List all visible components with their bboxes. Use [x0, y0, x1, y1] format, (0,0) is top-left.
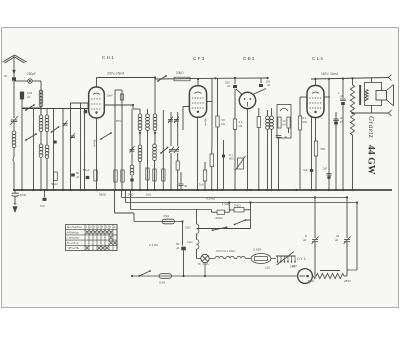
svg-text:0.5A: 0.5A: [163, 214, 169, 218]
svg-text:MΩ: MΩ: [303, 120, 307, 124]
svg-text:CB2: CB2: [185, 226, 191, 230]
svg-text:µF: µF: [227, 84, 231, 88]
svg-text:10nF: 10nF: [107, 94, 114, 98]
svg-text:Kurzw.: Kurzw.: [67, 241, 80, 245]
svg-text:0.5A: 0.5A: [159, 281, 165, 285]
svg-text:Schalter: Schalter: [67, 225, 85, 229]
svg-text:Th. 0,2A: Th. 0,2A: [198, 262, 209, 266]
svg-text:240: 240: [292, 264, 297, 268]
svg-text:270V: 270V: [308, 279, 315, 283]
svg-text:30: 30: [184, 184, 188, 188]
svg-text:580Ω: 580Ω: [99, 193, 107, 197]
svg-text:µF: µF: [340, 120, 344, 124]
svg-text:CH1: CH1: [187, 240, 193, 244]
svg-text:C B 2: C B 2: [243, 56, 255, 61]
svg-text:kΩ: kΩ: [283, 123, 286, 127]
svg-text:250pF: 250pF: [27, 72, 36, 76]
svg-text:Graetz: Graetz: [367, 116, 375, 138]
svg-text:2µF: 2µF: [323, 167, 328, 171]
svg-text:TA: TA: [67, 246, 80, 250]
svg-text:C Y 1: C Y 1: [297, 257, 306, 261]
svg-text:Mittelw.: Mittelw.: [67, 230, 80, 234]
svg-text:µF: µF: [176, 246, 180, 250]
svg-text:µF: µF: [303, 238, 307, 242]
svg-text:1.2 kΩ: 1.2 kΩ: [149, 243, 159, 247]
svg-text:CF3 CL4 CH1: CF3 CL4 CH1: [216, 249, 235, 253]
svg-text:C H 1: C H 1: [102, 55, 114, 60]
svg-text:580: 580: [321, 147, 326, 151]
svg-text:µF: µF: [76, 175, 80, 179]
svg-text:U 838: U 838: [253, 248, 261, 252]
svg-text:58kΩ: 58kΩ: [51, 182, 58, 186]
svg-text:µF: µF: [340, 94, 344, 98]
svg-text:75kΩ: 75kΩ: [234, 204, 242, 208]
svg-text:µF: µF: [267, 83, 271, 87]
svg-text:44 GW: 44 GW: [366, 145, 377, 175]
svg-text:80V: 80V: [116, 119, 121, 123]
svg-text:1kΩ: 1kΩ: [146, 193, 152, 197]
svg-text:kΩ: kΩ: [222, 122, 226, 126]
svg-text:µF: µF: [335, 238, 339, 242]
svg-text:285V: 285V: [344, 279, 351, 283]
svg-text:40nF: 40nF: [20, 193, 27, 197]
svg-text:20kΩ: 20kΩ: [176, 71, 184, 75]
svg-text:pF: pF: [27, 95, 31, 99]
svg-text:182V, 40mA: 182V, 40mA: [321, 72, 339, 76]
svg-text:C L 4: C L 4: [312, 56, 323, 61]
svg-text:110: 110: [265, 266, 270, 270]
svg-text:.nF: .nF: [3, 74, 8, 78]
svg-text:200V, 25mA: 200V, 25mA: [107, 72, 125, 76]
svg-text:C F 3: C F 3: [193, 56, 205, 61]
svg-text:25kΩ: 25kΩ: [216, 216, 224, 220]
svg-text:1kΩ: 1kΩ: [199, 183, 204, 187]
svg-text:µF: µF: [284, 135, 287, 139]
svg-text:50µF: 50µF: [83, 168, 90, 172]
svg-text:5kΩ: 5kΩ: [128, 193, 134, 197]
svg-text:45mA: 45mA: [93, 139, 97, 147]
svg-text:MΩ: MΩ: [229, 157, 233, 161]
svg-text:45mA: 45mA: [204, 118, 208, 126]
svg-text:5µF: 5µF: [304, 168, 309, 172]
svg-text:Langw.: Langw.: [67, 236, 80, 240]
svg-text:kΩ: kΩ: [239, 124, 243, 128]
svg-text:6nF: 6nF: [40, 204, 45, 208]
